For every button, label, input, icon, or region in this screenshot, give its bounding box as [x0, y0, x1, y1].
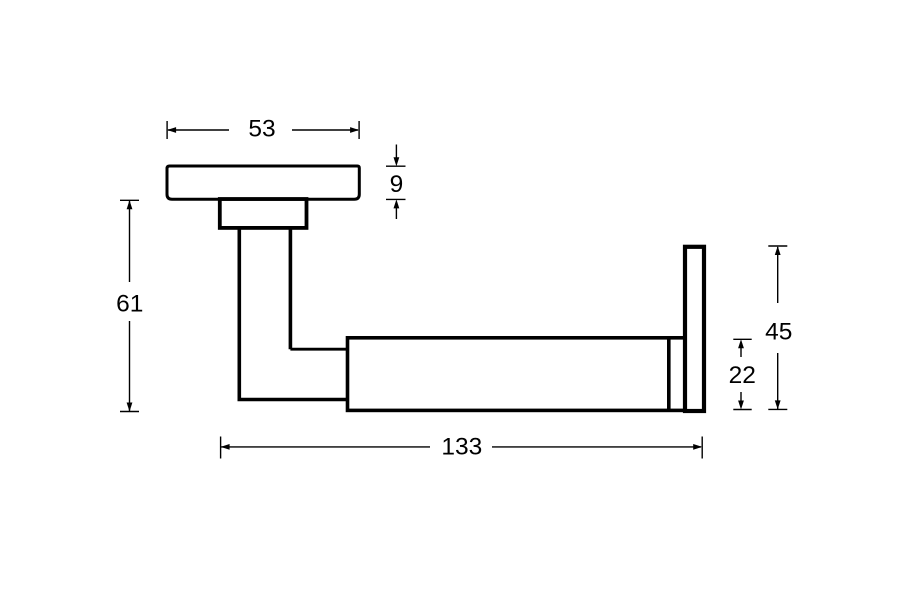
- lever/cap joint line: [667, 338, 671, 411]
- svg-text:9: 9: [390, 171, 404, 198]
- stem left edge: [239, 228, 347, 400]
- dimension 9 (plate thickness): [386, 145, 406, 220]
- dimension 133 (bottom length): [221, 437, 703, 459]
- wire: stem-to-lever connector: [290, 348, 347, 351]
- stem right edge: [289, 228, 293, 350]
- neck block under plate: [220, 199, 307, 228]
- svg-text:45: 45: [765, 318, 792, 345]
- lever body rectangle: [348, 338, 686, 411]
- svg-text:22: 22: [729, 362, 756, 389]
- dimension 22 (lever height): [733, 339, 751, 409]
- svg-text:53: 53: [248, 116, 275, 143]
- svg-text:61: 61: [116, 290, 143, 317]
- dimension 53 (top): [167, 121, 359, 139]
- dimension 45 (cap height): [768, 246, 787, 409]
- svg-text:133: 133: [441, 434, 482, 461]
- rose plate (top flange): [167, 166, 359, 199]
- end cap rectangle: [685, 247, 704, 411]
- dimension 61 (left height): [120, 200, 139, 411]
